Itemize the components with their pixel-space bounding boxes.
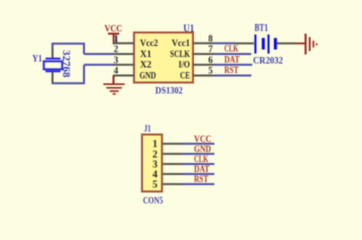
power port VCC: [105, 25, 123, 45]
svg-text:DS1302: DS1302: [155, 87, 183, 97]
svg-text:3: 3: [114, 55, 119, 65]
wire pin 8 to battery: [214, 42, 236, 44]
battery BT1 CR2032: [235, 23, 297, 67]
svg-text:CLK: CLK: [194, 154, 208, 164]
svg-text:5: 5: [153, 180, 158, 191]
svg-text:RST: RST: [224, 65, 238, 75]
svg-text:BT1: BT1: [255, 23, 269, 34]
svg-text:4: 4: [114, 66, 119, 76]
net label CLK wire: [214, 44, 252, 55]
svg-text:Vcc1: Vcc1: [172, 39, 191, 49]
svg-text:CR2032: CR2032: [253, 57, 283, 67]
svg-text:DAT: DAT: [194, 164, 210, 174]
svg-text:GND: GND: [194, 144, 211, 154]
connector pin 2 / net GND: [153, 144, 215, 160]
svg-text:5: 5: [208, 66, 213, 76]
svg-text:J1: J1: [144, 125, 151, 135]
connector pin 5 / net RST: [153, 174, 215, 190]
svg-text:U1: U1: [183, 23, 194, 34]
svg-text:VCC: VCC: [194, 134, 212, 144]
svg-text:CE: CE: [180, 71, 190, 81]
pin 3 X2: [113, 55, 152, 71]
pin 2 X1: [113, 44, 152, 60]
svg-text:CON5: CON5: [143, 197, 163, 207]
svg-text:Vcc2: Vcc2: [140, 39, 158, 49]
pin 6 I/O: [179, 55, 214, 71]
wire crystal top to X1: [52, 44, 114, 54]
pin 8 Vcc1: [172, 33, 214, 49]
connector J1 CON5 body: [142, 135, 162, 192]
svg-text:6: 6: [208, 55, 213, 65]
svg-text:2: 2: [114, 44, 119, 54]
svg-text:32768: 32768: [60, 50, 71, 78]
svg-text:Y1: Y1: [32, 55, 42, 65]
connector pin 1 / net VCC: [153, 134, 215, 150]
svg-text:I/O: I/O: [179, 61, 191, 71]
connector pin 3 / net CLK: [153, 154, 215, 170]
wire crystal bottom to X2: [52, 65, 114, 84]
IC U1 DS1302 body: [134, 33, 193, 83]
svg-text:GND: GND: [140, 71, 157, 81]
pin 1 Vcc2: [113, 33, 158, 49]
crystal Y1: [32, 49, 62, 83]
pin 7 SCLK: [170, 44, 214, 60]
earth ground right of battery: [296, 34, 317, 55]
svg-text:DAT: DAT: [224, 54, 240, 64]
pin 5 CE: [180, 66, 214, 82]
svg-text:7: 7: [208, 44, 213, 54]
svg-text:RST: RST: [194, 174, 208, 184]
wire VCC to pin 1: [115, 37, 117, 45]
svg-text:SCLK: SCLK: [170, 50, 190, 60]
net label DAT wire: [214, 54, 253, 65]
connector pin 4 / net DAT: [153, 164, 215, 180]
svg-text:8: 8: [208, 33, 213, 43]
svg-text:CLK: CLK: [224, 44, 238, 54]
pin 4 GND: [113, 66, 156, 82]
svg-text:X1: X1: [140, 50, 152, 60]
net label RST wire: [214, 65, 252, 76]
svg-text:X2: X2: [140, 61, 152, 71]
svg-text:1: 1: [114, 33, 119, 43]
ground symbol under pin 4: [103, 76, 124, 94]
